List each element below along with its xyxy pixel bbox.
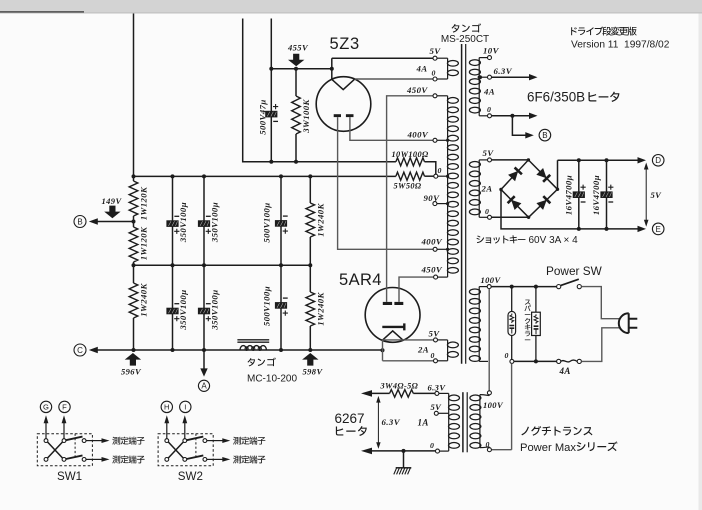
wire 455V node to tube bbox=[271, 68, 332, 70]
wire bus C (bottom) bbox=[98, 349, 383, 351]
SW2 measurement terminals bbox=[207, 440, 223, 442]
svg-text:G: G bbox=[43, 403, 49, 412]
svg-text:0: 0 bbox=[430, 441, 434, 450]
winding HV 450-400-0-90-400-450 bbox=[447, 96, 449, 277]
note drive-stage-revision bbox=[571, 26, 636, 35]
svg-text:5V: 5V bbox=[431, 402, 443, 412]
resistor 10W100ohm bbox=[396, 158, 425, 166]
svg-text:350V100µ: 350V100µ bbox=[209, 202, 219, 243]
svg-text:3W100K: 3W100K bbox=[301, 99, 311, 134]
wire fuse to plug bottom bbox=[581, 328, 620, 362]
svg-text:5Z3: 5Z3 bbox=[330, 35, 360, 53]
diode D4 (schottky) bbox=[536, 200, 546, 210]
svg-text:350V100µ: 350V100µ bbox=[178, 202, 188, 243]
svg-text:0: 0 bbox=[431, 351, 435, 360]
svg-text:4A: 4A bbox=[483, 87, 495, 97]
resistor 3W4-5ohm bbox=[371, 392, 390, 394]
wire 5Z3 left plate to 400V bottom tap bbox=[338, 117, 434, 249]
wire 5AR4 filament junction to 0 line bbox=[383, 340, 434, 361]
title tango (MS-250CT) bbox=[452, 23, 482, 32]
label schottky bbox=[477, 235, 526, 243]
switch SW2 levers bbox=[187, 437, 204, 441]
5V span arrow D-E bbox=[645, 165, 647, 225]
svg-text:5V: 5V bbox=[429, 329, 441, 339]
wire 100V to lower transformer bbox=[488, 289, 490, 391]
node A arrow bbox=[203, 350, 205, 369]
capacitor 350V100u #2 bbox=[203, 176, 205, 265]
heater output 6.3V arrow bbox=[491, 76, 529, 78]
capacitor 500V47u bbox=[265, 111, 277, 118]
wire 5AR4 filament 5V line bbox=[383, 339, 434, 341]
svg-text:5V: 5V bbox=[483, 148, 495, 158]
label series bbox=[577, 441, 618, 451]
svg-text:MC-10-200: MC-10-200 bbox=[247, 374, 297, 385]
svg-text:0: 0 bbox=[438, 166, 442, 175]
wire feed from top at x=242.7 (to cap bottom bus) bbox=[243, 19, 396, 162]
svg-text:5V: 5V bbox=[651, 190, 663, 200]
wire feed from top at x=271.3 (455V node) bbox=[270, 19, 272, 162]
SW1 measurement terminals bbox=[86, 440, 102, 442]
switch SW1 cross wiring bbox=[47, 442, 62, 458]
wire 0 rail bbox=[514, 360, 557, 362]
resistor 1W240K upper right bbox=[309, 176, 311, 203]
winding 5V 4A (5Z3 filament) bbox=[447, 58, 449, 79]
measurement arrow 598V bbox=[302, 353, 318, 366]
fuse 4A bbox=[557, 359, 561, 363]
svg-text:D: D bbox=[655, 156, 661, 165]
svg-text:100V: 100V bbox=[481, 275, 502, 285]
label measurement-terminal SW2b bbox=[233, 455, 265, 463]
wire bridge plus to D rail bbox=[558, 160, 644, 189]
6.3V span arrow bbox=[377, 398, 379, 446]
svg-text:1W120K: 1W120K bbox=[139, 186, 149, 220]
tube 5AR4 bbox=[365, 288, 420, 343]
svg-text:C: C bbox=[77, 346, 83, 355]
svg-text:6.3V: 6.3V bbox=[494, 66, 513, 76]
svg-text:2A: 2A bbox=[417, 345, 429, 355]
svg-text:0: 0 bbox=[486, 440, 490, 449]
5AR4 cathode bbox=[382, 323, 404, 330]
resistor 1W240K lower right bbox=[309, 265, 311, 292]
wire bridge minus to E rail bbox=[501, 190, 643, 229]
svg-text:6.3V: 6.3V bbox=[382, 417, 401, 427]
diode D1 (schottky) bbox=[508, 171, 518, 181]
diode D3 (schottky) bbox=[511, 200, 521, 210]
svg-text:H: H bbox=[164, 403, 169, 412]
svg-text:1A: 1A bbox=[418, 418, 429, 428]
resistor 5W50ohm bbox=[396, 172, 425, 180]
spark killer capsule bbox=[511, 287, 513, 312]
scanner gray band top bbox=[0, 0, 702, 14]
node I bbox=[180, 401, 191, 412]
node C bbox=[74, 344, 86, 356]
transformer Noguchi core bbox=[462, 392, 464, 452]
wire bus middle bbox=[134, 264, 311, 266]
resistor 1W240K left bbox=[133, 265, 135, 283]
svg-text:I: I bbox=[184, 403, 186, 412]
bridge rectifier diamond bbox=[501, 160, 558, 217]
label tango (choke) bbox=[248, 357, 276, 366]
winding 6.3V 5V 1A (6267 heater) bbox=[448, 393, 450, 451]
heater output 0 arrow bbox=[491, 115, 529, 117]
winding 10V 6.3V 4A (6F6/350B heater) bbox=[478, 58, 480, 116]
svg-text:0: 0 bbox=[505, 351, 509, 360]
svg-text:B: B bbox=[77, 217, 82, 226]
ground bbox=[403, 451, 405, 468]
svg-text:4A: 4A bbox=[559, 366, 571, 376]
svg-text:A: A bbox=[201, 382, 207, 391]
svg-text:6267: 6267 bbox=[335, 411, 365, 426]
switch SW1 contacts bbox=[44, 439, 48, 443]
svg-text:16V4700µ: 16V4700µ bbox=[564, 175, 574, 215]
svg-text:500V100µ: 500V100µ bbox=[261, 202, 271, 242]
svg-text:6.3V: 6.3V bbox=[428, 383, 447, 393]
wire 0 heater return bbox=[371, 450, 436, 452]
svg-text:0: 0 bbox=[487, 105, 491, 114]
wire 450V top tap to 5AR4 left plate bbox=[387, 96, 434, 302]
svg-text:450V: 450V bbox=[421, 265, 443, 275]
label heater (6267) bbox=[336, 426, 367, 436]
svg-text:0: 0 bbox=[432, 69, 436, 78]
wire 0 to lower transformer bbox=[491, 363, 511, 449]
svg-text:E: E bbox=[656, 225, 661, 234]
AC plug bbox=[619, 313, 629, 333]
svg-text:5AR4: 5AR4 bbox=[339, 271, 382, 289]
switch SW2 contacts bbox=[165, 439, 169, 443]
wire switch to plug top bbox=[581, 287, 620, 319]
svg-text:5V: 5V bbox=[430, 46, 442, 56]
node H bbox=[161, 401, 172, 412]
svg-text:Power Max: Power Max bbox=[520, 442, 576, 454]
wire 10W100 to 0 tap bbox=[425, 162, 436, 174]
node D bbox=[652, 155, 664, 167]
wire feed from top at x=133.5 bbox=[133, 14, 135, 177]
wire 5Z3 filament to 5V tap bbox=[332, 58, 433, 69]
node F bbox=[59, 401, 70, 412]
svg-text:Power SW: Power SW bbox=[546, 264, 603, 278]
svg-text:1W240K: 1W240K bbox=[139, 283, 149, 317]
5AR4 plates bbox=[383, 302, 392, 305]
svg-text:0: 0 bbox=[485, 207, 489, 216]
switch SW1 levers bbox=[66, 437, 83, 441]
capacitor 500V100u lower bbox=[280, 265, 282, 350]
svg-text:598V: 598V bbox=[303, 367, 324, 377]
svg-text:500V47µ: 500V47µ bbox=[257, 99, 267, 134]
svg-text:3W4Ω-5Ω: 3W4Ω-5Ω bbox=[380, 381, 419, 390]
svg-text:400V: 400V bbox=[407, 129, 429, 139]
tube 5Z3 bbox=[316, 77, 371, 132]
svg-text:450V: 450V bbox=[406, 85, 428, 95]
wire 5AR4 right plate to 450V bottom tap bbox=[399, 277, 434, 302]
winding 100V primary bbox=[478, 287, 480, 362]
wire 0 to bridge bbox=[492, 216, 529, 218]
resistor 3W100K bbox=[295, 69, 297, 96]
svg-text:16V4700µ: 16V4700µ bbox=[591, 175, 601, 215]
measurement arrow 455V bbox=[288, 54, 304, 67]
svg-text:596V: 596V bbox=[121, 367, 142, 377]
switch Power SW bbox=[557, 285, 561, 289]
capacitor 350V100u #4 bbox=[203, 265, 205, 350]
SW1 output arrows to G/F bbox=[45, 422, 47, 439]
wire 5Z3 right plate to 400V top tap bbox=[350, 117, 433, 140]
svg-text:400V: 400V bbox=[421, 237, 443, 247]
node B (right) bbox=[539, 129, 551, 141]
svg-text:10V: 10V bbox=[483, 46, 500, 56]
svg-text:B: B bbox=[542, 131, 547, 140]
svg-text:6F6/350B: 6F6/350B bbox=[527, 90, 585, 105]
diode D2 (schottky) bbox=[536, 168, 546, 178]
svg-text:500V100µ: 500V100µ bbox=[261, 286, 271, 326]
5AR4 filament bbox=[383, 331, 403, 340]
label spark killer bbox=[524, 300, 531, 341]
SW2 output arrows to H/I bbox=[166, 422, 168, 439]
svg-text:Version 11 1997/8/02: Version 11 1997/8/02 bbox=[571, 39, 670, 50]
svg-text:455V: 455V bbox=[287, 43, 309, 53]
5Z3 plates bbox=[334, 114, 341, 117]
svg-text:1W120K: 1W120K bbox=[139, 226, 149, 260]
measurement arrow 149V bbox=[104, 206, 120, 219]
transformer MS-250CT core bbox=[461, 44, 463, 364]
node E bbox=[652, 223, 664, 235]
label measurement-terminal SW1a bbox=[112, 437, 144, 445]
measurement arrow 596V bbox=[125, 353, 141, 366]
svg-text:SW2: SW2 bbox=[178, 470, 203, 483]
capacitor 16V4700u #2 bbox=[606, 160, 608, 229]
capacitor 16V4700u #1 bbox=[578, 160, 580, 229]
choke MC-10-200 bbox=[240, 346, 266, 350]
resistor 1W120K lower bbox=[133, 222, 135, 228]
node B output line bbox=[98, 221, 134, 223]
svg-text:1W240K: 1W240K bbox=[316, 292, 326, 326]
capacitor 500V100u upper bbox=[280, 176, 282, 265]
wire 100V rail bbox=[491, 286, 557, 288]
svg-text:100V: 100V bbox=[483, 400, 504, 410]
winding 5V 2A (schottky bridge) bbox=[478, 160, 480, 217]
label measurement-terminal SW2a bbox=[233, 437, 265, 445]
svg-text:2A: 2A bbox=[481, 184, 493, 194]
wire bus upper (to 5W50) bbox=[134, 175, 396, 177]
label heater (6F6) bbox=[588, 92, 619, 102]
svg-text:60V 3A × 4: 60V 3A × 4 bbox=[529, 235, 579, 246]
node A bbox=[198, 380, 209, 391]
capacitor 350V100u #3 bbox=[172, 265, 174, 350]
svg-text:MS-250CT: MS-250CT bbox=[441, 34, 489, 45]
resistor 1W120K upper bbox=[133, 176, 135, 181]
svg-text:149V: 149V bbox=[102, 196, 123, 206]
switch SW1 box bbox=[37, 434, 92, 466]
svg-text:350V100µ: 350V100µ bbox=[209, 289, 219, 330]
branch to node B bbox=[512, 116, 525, 136]
capacitor 350V100u #1 bbox=[172, 176, 174, 265]
wire 5Z3 filament right to 0 tap bbox=[355, 78, 433, 80]
wire 5V to bridge bbox=[492, 159, 529, 161]
svg-text:350V100µ: 350V100µ bbox=[178, 289, 188, 330]
label noguchi trans bbox=[521, 426, 592, 436]
node G bbox=[40, 401, 51, 412]
spark killer box bbox=[535, 287, 537, 313]
switch SW2 cross wiring bbox=[168, 442, 183, 458]
node B bbox=[74, 216, 86, 228]
svg-text:90V: 90V bbox=[424, 193, 441, 203]
winding 100V (lower primary) bbox=[479, 395, 481, 448]
svg-text:5W50Ω: 5W50Ω bbox=[394, 182, 422, 191]
svg-text:10W100Ω: 10W100Ω bbox=[392, 150, 430, 159]
svg-text:1W240K: 1W240K bbox=[316, 203, 326, 237]
svg-text:4A: 4A bbox=[416, 64, 428, 74]
winding 5V 2A (5AR4 filament) bbox=[447, 340, 449, 361]
svg-text:SW1: SW1 bbox=[57, 470, 82, 483]
label measurement-terminal SW1b bbox=[112, 455, 144, 463]
svg-text:F: F bbox=[62, 403, 67, 412]
switch SW2 box bbox=[158, 434, 213, 466]
